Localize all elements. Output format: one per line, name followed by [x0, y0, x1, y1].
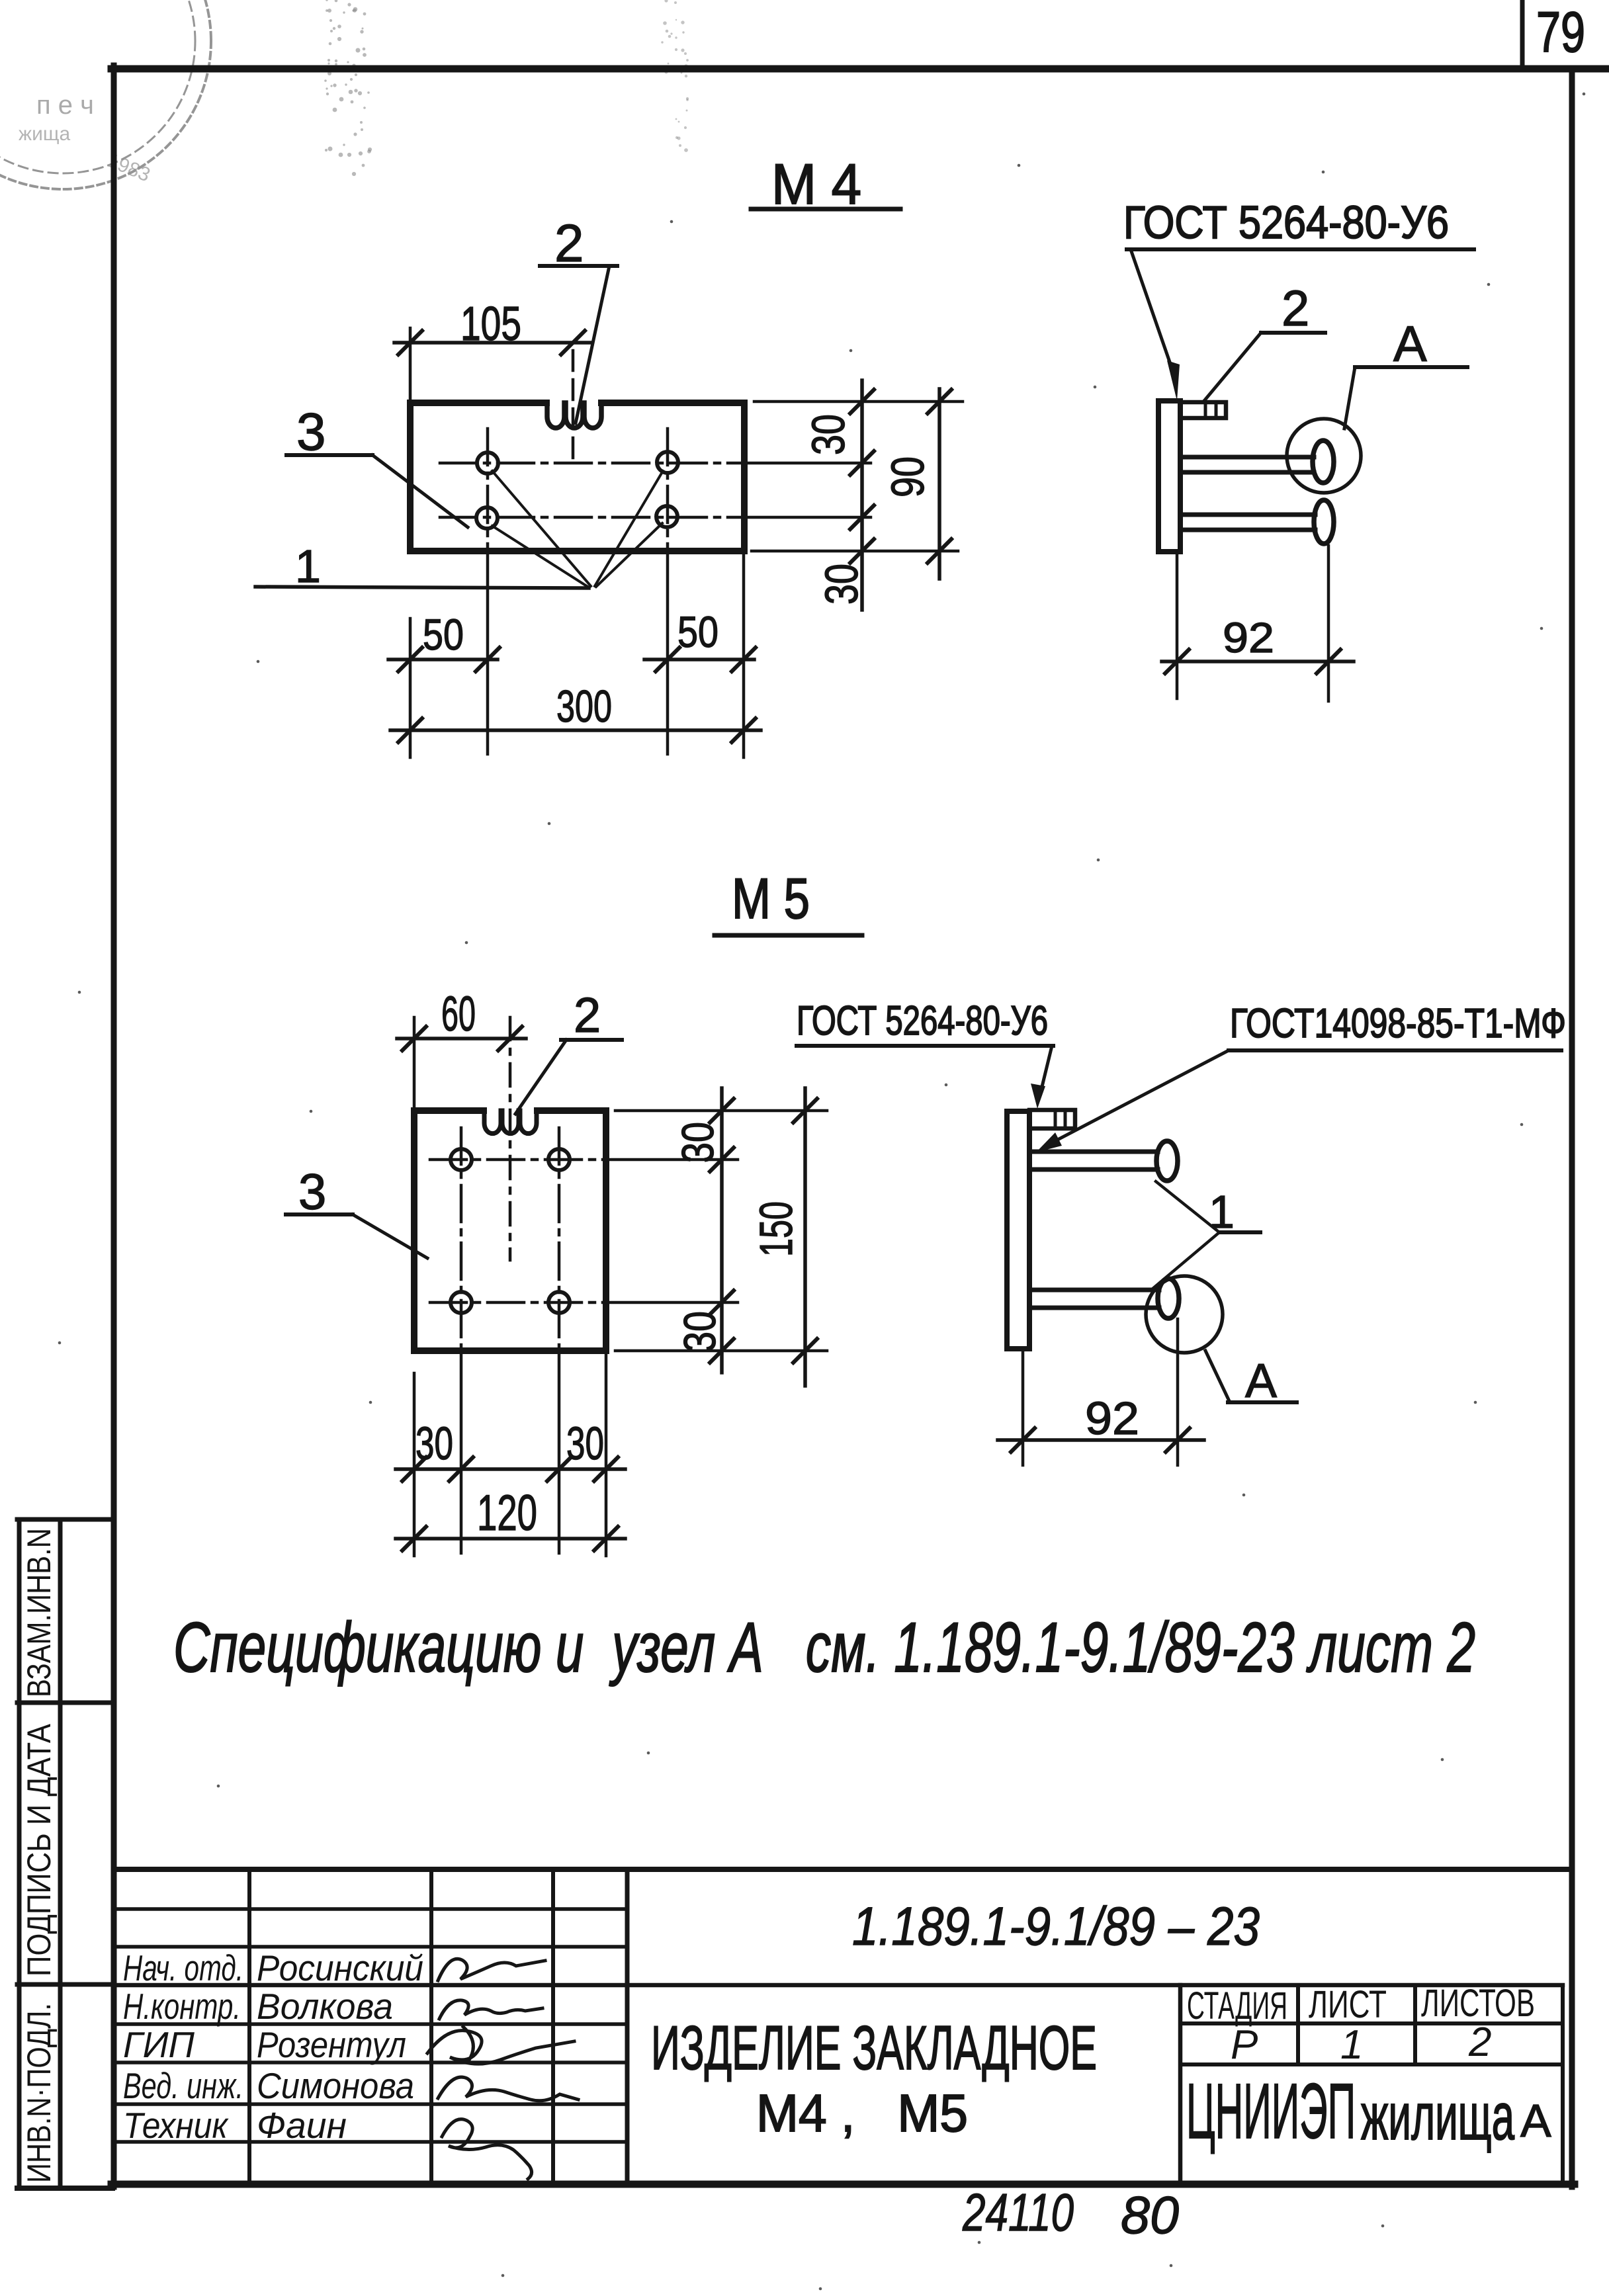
svg-text:ГОСТ14098-85-Т1-МФ: ГОСТ14098-85-Т1-МФ [1230, 1001, 1566, 1046]
svg-text:ЛИСТ: ЛИСТ [1309, 1983, 1387, 2026]
bent tab with weld notch (M4 side) [1180, 402, 1226, 418]
dimension 60 (M5) [413, 1017, 416, 1107]
svg-text:ВЗАМ.ИНВ.N: ВЗАМ.ИНВ.N [21, 1528, 58, 1697]
svg-text:жилища: жилища [1361, 2080, 1514, 2154]
svg-text:30: 30 [816, 564, 867, 605]
dimension 30 top right (M5) [615, 1109, 827, 1113]
dimension 30 bottom-left (M5) [413, 1373, 416, 1556]
stage table [1178, 1985, 1183, 2184]
centerline M5 left hole column [460, 1128, 463, 1351]
svg-text:2: 2 [554, 214, 584, 273]
centerline M5 notch [509, 1017, 512, 1260]
svg-text:СТАДИЯ: СТАДИЯ [1187, 1984, 1287, 2027]
svg-text:жища: жища [19, 123, 71, 145]
svg-text:80: 80 [1121, 2186, 1179, 2244]
svg-text:3: 3 [298, 1164, 326, 1220]
faint speckle streaks [324, 0, 689, 176]
svg-text:50: 50 [423, 610, 464, 659]
hole M4 top-left [477, 452, 498, 474]
dimension 92 (M5 side) [1022, 1352, 1025, 1465]
plate M5 side (vertical bar) [1007, 1111, 1029, 1349]
centerline M5 top hole row [430, 1158, 606, 1162]
anchor bolt lower (M4 side) [1180, 513, 1315, 517]
svg-text:ЛИСТОВ: ЛИСТОВ [1421, 1982, 1535, 2025]
svg-text:150: 150 [750, 1201, 802, 1257]
hole M5 bottom-left [451, 1292, 472, 1313]
plate M4 side (vertical bar) [1158, 401, 1180, 552]
svg-text:ГОСТ 5264-80-У6: ГОСТ 5264-80-У6 [797, 998, 1048, 1044]
weld notch M4 top edge [547, 403, 601, 428]
svg-text:Симонова: Симонова [257, 2065, 414, 2106]
svg-text:50: 50 [677, 607, 718, 656]
svg-text:24110: 24110 [962, 2183, 1074, 2242]
centerline M5 bottom hole row [430, 1301, 606, 1304]
dimension 90 (M4) [937, 389, 941, 579]
anchor bolt upper (M5 side) [1029, 1150, 1158, 1154]
detail circle A (M5 side) [1146, 1276, 1223, 1353]
svg-text:2: 2 [1468, 2020, 1491, 2065]
svg-text:60: 60 [441, 986, 476, 1041]
signature Simonova [438, 2077, 578, 2101]
svg-text:А: А [1520, 2095, 1551, 2147]
centerline M4 top hole row [440, 462, 744, 465]
svg-text:ИЗДЕЛИЕ ЗАКЛАДНОЕ: ИЗДЕЛИЕ ЗАКЛАДНОЕ [651, 2013, 1097, 2082]
plate M5 outline (item 3) [414, 1111, 606, 1351]
centerline M4 right hole column [666, 429, 670, 551]
svg-text:1: 1 [1340, 2022, 1363, 2068]
svg-text:1: 1 [1209, 1186, 1235, 1238]
anchor bolt upper (M4 side) [1180, 455, 1314, 460]
hole M5 top-right [548, 1149, 570, 1170]
frame left border [111, 65, 117, 2187]
svg-text:ГИП: ГИП [123, 2024, 195, 2065]
hole M4 top-right [657, 452, 678, 473]
centerline M4 bottom hole row [440, 516, 744, 519]
left margin boxes [17, 1519, 22, 2188]
svg-text:ПОДПИСЬ И ДАТА: ПОДПИСЬ И ДАТА [21, 1723, 58, 1977]
svg-text:ГОСТ 5264-80-У6: ГОСТ 5264-80-У6 [1123, 196, 1449, 248]
svg-text:Фаин: Фаин [257, 2105, 347, 2146]
svg-text:Розентул: Розентул [257, 2024, 406, 2065]
svg-text:3: 3 [296, 402, 326, 461]
dimension 120 (M5) [396, 1537, 625, 1541]
frame top border [111, 65, 1609, 73]
svg-text:Р: Р [1231, 2022, 1258, 2068]
dimension 50 left (M4) [409, 618, 412, 757]
svg-text:120: 120 [477, 1485, 537, 1541]
svg-text:79: 79 [1536, 1, 1585, 64]
dimension 105 (M4) [409, 328, 412, 405]
svg-text:А: А [1245, 1355, 1277, 1408]
svg-text:30: 30 [803, 414, 854, 455]
svg-text:ИНВ.N·ПОДЛ.: ИНВ.N·ПОДЛ. [21, 2003, 58, 2183]
svg-text:Росинский: Росинский [257, 1947, 423, 1988]
bent tab with weld notch (M5 side) [1029, 1110, 1075, 1128]
signature Fain [442, 2119, 532, 2179]
svg-text:92: 92 [1085, 1392, 1139, 1444]
svg-text:30: 30 [673, 1122, 723, 1163]
svg-text:Н.контр.: Н.контр. [123, 1986, 241, 2027]
svg-text:Нач. отд.: Нач. отд. [123, 1947, 243, 1988]
title block outline [114, 1867, 1572, 1872]
svg-text:Вед. инж.: Вед. инж. [123, 2065, 243, 2106]
svg-text:105: 105 [460, 298, 521, 351]
svg-text:Техник: Техник [123, 2105, 229, 2146]
svg-text:п е ч: п е ч [36, 91, 94, 120]
svg-text:30: 30 [415, 1418, 453, 1469]
plate M4 outline (item 3) [410, 403, 744, 551]
svg-text:А: А [1393, 316, 1427, 372]
hole M4 bottom-left [476, 507, 498, 529]
svg-text:Волкова: Волкова [257, 1986, 393, 2027]
svg-text:2: 2 [574, 988, 601, 1042]
hole M4 bottom-right [656, 506, 677, 527]
svg-text:Спецификацию и узел А см. 1: Спецификацию и узел А см. 1.189.1-9.1/89… [173, 1607, 1475, 1687]
anchor bolt lower (M5 side) [1029, 1288, 1159, 1293]
svg-text:М4 , М5: М4 , М5 [756, 2084, 968, 2143]
weld notch M5 top edge [484, 1111, 537, 1134]
hole M5 top-left [451, 1149, 472, 1170]
svg-text:30: 30 [566, 1418, 604, 1469]
frame bottom border [111, 2181, 1575, 2188]
signature Rosinskiy [438, 1959, 545, 1980]
full divider row [114, 1983, 1563, 1988]
svg-text:1: 1 [295, 540, 321, 592]
centerline M4 notch [572, 351, 575, 460]
signature Volkova [439, 2000, 543, 2019]
svg-text:92: 92 [1223, 614, 1274, 661]
svg-text:300: 300 [556, 681, 612, 732]
frame right border [1569, 69, 1575, 2187]
dimension 92 (M4 side) [1176, 554, 1179, 699]
centerline M5 right hole column [558, 1128, 561, 1351]
faint round stamp top-left [0, 0, 211, 189]
svg-text:ЦНИИЭП: ЦНИИЭП [1186, 2068, 1356, 2155]
dimension 30 top right (M4) [754, 400, 963, 404]
svg-text:1.189.1-9.1/89 – 23: 1.189.1-9.1/89 – 23 [852, 1896, 1260, 1957]
svg-text:30: 30 [675, 1311, 725, 1352]
svg-text:М 5: М 5 [732, 867, 810, 931]
svg-text:2: 2 [1282, 280, 1309, 337]
centerline M4 left hole column [486, 429, 490, 551]
svg-text:90: 90 [882, 456, 934, 497]
page number box separator [1520, 0, 1525, 69]
detail circle A (M4 side) [1287, 419, 1361, 493]
dimension 300 (M4) [390, 728, 761, 732]
hole M5 bottom-right [548, 1292, 570, 1313]
dimension 150 (M5) [803, 1088, 807, 1386]
signature Rozentul [427, 2027, 574, 2064]
